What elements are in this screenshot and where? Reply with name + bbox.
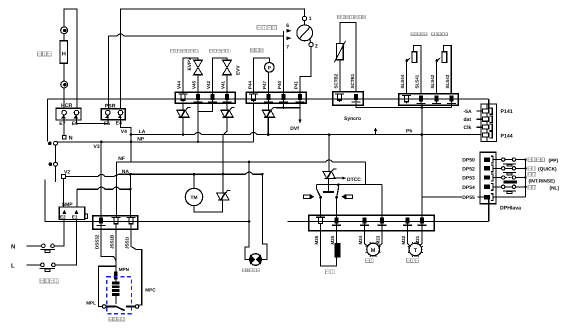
wire JSS1I to MPC	[131, 226, 142, 305]
drain triac	[216, 192, 225, 194]
label door lock (gray)	[109, 317, 112, 321]
label level switch (gray)	[257, 25, 261, 29]
svg-text:NA: NA	[122, 169, 130, 175]
svg-text:JSS1I: JSS1I	[124, 237, 129, 249]
svg-text:dat: dat	[464, 117, 472, 123]
label wash temp sensor (gray)	[338, 15, 341, 19]
svg-text:Clk: Clk	[464, 125, 472, 131]
wire net JSS1B (from NF)	[115, 162, 117, 218]
wire terminal2 to pin P41	[300, 47, 311, 94]
svg-text:SCTB2: SCTB2	[334, 73, 339, 88]
svg-text:DP53: DP53	[462, 176, 475, 182]
svg-text:E7: E7	[59, 121, 65, 127]
svg-text:DP55: DP55	[462, 195, 475, 201]
svg-text:V2: V2	[64, 170, 70, 176]
wire NF to drain pump left	[245, 162, 250, 260]
wire DP55 from motor net	[422, 196, 462, 198]
label drain pump (gray)	[243, 269, 246, 272]
wire	[63, 63, 65, 81]
svg-text:M24: M24	[358, 235, 363, 244]
svg-text:EVPV: EVPV	[187, 57, 193, 71]
wire SLS41 long net to motor pin M21	[421, 104, 423, 218]
svg-text:E5: E5	[104, 121, 110, 127]
wire triac2 down to NA rail and drain triac	[223, 117, 227, 193]
door lock chain	[115, 268, 117, 271]
wire E2 to mains N	[54, 220, 64, 246]
pin P44	[249, 93, 258, 95]
rail V2 / NA	[62, 175, 66, 179]
label heater (gray)	[38, 52, 42, 56]
svg-text:M: M	[371, 248, 376, 254]
svg-text:MPC: MPC	[145, 287, 156, 292]
pump P	[265, 63, 275, 73]
PSR contact E5	[106, 110, 111, 115]
wire net JSS1I (from NA)	[129, 174, 131, 217]
DIP pin DP53	[484, 175, 490, 179]
pin P47	[267, 94, 271, 100]
terminal MPL	[102, 305, 106, 309]
svg-text:PSR: PSR	[105, 103, 116, 109]
HCR contact E7	[62, 110, 67, 115]
svg-text:M22: M22	[401, 235, 406, 244]
thermal module TM	[185, 188, 202, 205]
HCR contact E6	[74, 110, 79, 115]
wire NA to drain pump right	[261, 174, 267, 259]
svg-text:-5A: -5A	[464, 109, 472, 115]
switch DP54	[493, 186, 502, 188]
pin JSS1I	[126, 217, 135, 219]
svg-text:DPHlava: DPHlava	[500, 205, 521, 211]
svg-text:(INT.RINSE): (INT.RINSE)	[529, 178, 556, 184]
label mains plug (gray)	[40, 279, 44, 283]
svg-text:L: L	[11, 263, 15, 270]
pin M24	[363, 217, 367, 223]
triac DV2 (cold valve)	[220, 109, 229, 111]
svg-text:P141: P141	[501, 109, 513, 115]
plug plate L	[40, 267, 55, 269]
wire	[63, 88, 65, 109]
pin DSS32	[99, 218, 103, 224]
triac DP (pump)	[262, 109, 271, 111]
net DVf: pin P41 to pump triac gate	[276, 108, 300, 121]
wire triac to LA rail	[182, 117, 184, 134]
motor feed rail	[316, 184, 382, 186]
DIP pin DP55	[484, 195, 490, 199]
switch DP53	[493, 177, 502, 179]
main board bus y99	[48, 98, 489, 100]
svg-text:MPL: MPL	[86, 301, 96, 306]
terminal N	[62, 135, 66, 139]
P141 pin row 3	[483, 125, 489, 129]
heater top terminal	[61, 27, 68, 34]
svg-text:(NL): (NL)	[550, 185, 560, 191]
pin SLS44	[402, 95, 411, 97]
svg-text:HCR: HCR	[61, 103, 72, 109]
wire JSS1B to lock junction	[115, 226, 117, 269]
P141 pin row 2	[483, 117, 489, 121]
rail LA / Ph (phase)	[131, 133, 482, 135]
pin JSS1B	[111, 217, 120, 219]
wire SLS43 to return line	[451, 104, 453, 108]
rail NF	[116, 160, 365, 162]
wire E6 to E5	[77, 115, 108, 124]
triac DTCC	[322, 170, 331, 172]
wire E1 to mains L	[55, 220, 76, 265]
DIP pin DP52	[484, 166, 490, 170]
wire EVPV to pin V45	[197, 75, 199, 94]
svg-text:1: 1	[309, 16, 312, 22]
pin SCTB2	[335, 93, 344, 95]
wire SMP E1 line	[77, 187, 130, 189]
triac DV1 (hot valve)	[176, 109, 185, 111]
svg-text:DP50: DP50	[462, 158, 475, 164]
NTC body	[337, 44, 344, 60]
svg-text:SMP: SMP	[62, 202, 74, 208]
wire P top loop to pin P44	[254, 58, 270, 94]
wire rail to bottom bus	[488, 197, 490, 221]
connector P141/P144	[481, 104, 497, 141]
wire MPL riser	[99, 266, 117, 306]
svg-text:P47: P47	[262, 80, 267, 89]
svg-text:P44: P44	[247, 80, 252, 89]
svg-text:E1: E1	[72, 215, 78, 220]
svg-text:NP: NP	[137, 136, 145, 142]
wire V2 to SMP E2	[62, 178, 64, 207]
water level switch body	[297, 25, 313, 41]
wire E7 to terminal N	[63, 115, 65, 135]
lock contacts	[106, 305, 115, 307]
wire top net to level switch terminal 1	[121, 9, 305, 109]
svg-text:DVf: DVf	[290, 126, 299, 132]
wire	[63, 34, 65, 41]
heater bottom terminal	[61, 81, 68, 88]
drain pump motor	[250, 254, 262, 266]
switch DP50	[493, 159, 502, 161]
rail V3 / NP	[57, 141, 253, 143]
svg-text:MPN: MPN	[119, 267, 130, 272]
relay HCR	[56, 108, 81, 120]
NTC sensor SCTB loop	[340, 22, 356, 91]
valve EVV body	[223, 59, 232, 61]
pin SCTB1	[354, 94, 358, 100]
pin P40	[281, 94, 285, 100]
P141 pin row 4	[483, 133, 489, 137]
relay PSR	[101, 109, 125, 120]
svg-text:SCTB1: SCTB1	[350, 73, 355, 88]
inline connector pair A	[48, 142, 52, 146]
sensor SLS42/43 loop	[436, 59, 438, 94]
label hot water valve (gray)	[171, 49, 174, 52]
svg-text:DTCC: DTCC	[347, 177, 361, 183]
PSR contact E4	[118, 110, 123, 115]
svg-text:6: 6	[286, 23, 289, 29]
svg-text:SLS44: SLS44	[400, 74, 405, 88]
svg-text:M25: M25	[330, 235, 335, 244]
wire pin P44 down to NP rail	[253, 103, 255, 142]
wire	[55, 166, 57, 182]
svg-text:DP52: DP52	[462, 166, 475, 172]
svg-text:V42: V42	[206, 80, 211, 89]
svg-text:LA: LA	[139, 129, 146, 135]
wire rail to pin M23	[381, 185, 383, 218]
wire bus left leg	[45, 180, 249, 222]
svg-text:P41: P41	[294, 80, 299, 89]
wire triac to LA rail	[267, 117, 269, 134]
door lock boundary (blue dashed)	[107, 277, 132, 314]
svg-text:7: 7	[286, 45, 289, 51]
wire	[108, 36, 110, 109]
wire TM bottom loop	[194, 200, 223, 212]
valve EVV loop	[213, 58, 228, 94]
heater element H	[60, 41, 67, 64]
wire EVV to pin V41	[226, 75, 228, 94]
svg-text:V45: V45	[192, 80, 197, 89]
svg-text:V4: V4	[121, 129, 127, 135]
wire E4 to LA rail (net V4)	[121, 115, 132, 162]
level switch terminal 2	[309, 42, 313, 46]
wire pin V44 to triac	[182, 103, 184, 110]
Syncro tap on Ph rail	[375, 130, 377, 135]
DIP option labels (gray)	[528, 158, 532, 162]
wire bus to connector P141 pin1	[488, 99, 490, 109]
level switch terminal 1	[302, 16, 306, 20]
heater EH loop top wire	[64, 9, 77, 109]
motor common plate	[323, 191, 334, 193]
pin M25	[335, 217, 339, 223]
wire frame left drop	[47, 99, 49, 142]
svg-text:N: N	[69, 136, 73, 142]
DIP connector DP5x	[480, 152, 496, 204]
svg-text:NF: NF	[118, 156, 125, 162]
pin P41	[298, 94, 302, 100]
tacho T	[407, 225, 409, 244]
svg-text:P40: P40	[277, 80, 282, 89]
svg-text:(PP): (PP)	[549, 158, 559, 164]
svg-text:N: N	[11, 243, 15, 250]
label speed sensor 1 (gray)	[411, 33, 414, 36]
wire Ph to DTCC triac	[328, 135, 330, 172]
direction arrow left	[303, 195, 310, 198]
label cold water valve (gray)	[210, 49, 213, 52]
wire net DSS32 (from V3)	[100, 142, 102, 218]
terminal MPC	[135, 305, 139, 309]
motor connector strip M2x	[309, 215, 434, 231]
svg-text:(QUICK): (QUICK)	[538, 167, 557, 173]
svg-text:M26: M26	[314, 235, 319, 244]
level switch terminals 6/7	[283, 31, 285, 38]
svg-text:EVV: EVV	[236, 65, 242, 75]
pin V44	[179, 93, 188, 95]
svg-text:SLS42: SLS42	[430, 74, 435, 88]
pin V42	[211, 94, 215, 100]
valve EVPV loop	[183, 58, 198, 94]
PTC block	[112, 282, 120, 285]
pin V41	[225, 94, 229, 100]
wire pins V45+V42 to NP rail	[197, 103, 199, 142]
svg-text:E4: E4	[116, 121, 122, 127]
svg-text:V41: V41	[221, 80, 226, 89]
reversing contact left	[315, 185, 317, 189]
wire DSS32 to lock junction	[101, 226, 116, 261]
DIP common rail	[525, 160, 527, 198]
connector strip P44/P47/P40/P41	[246, 92, 306, 103]
DIP pin DP54	[484, 185, 490, 189]
pin M23	[380, 217, 384, 223]
pin SLS43	[450, 96, 454, 102]
label pump (gray)	[251, 48, 255, 52]
stator winding loop	[321, 225, 337, 266]
wire NA to TM	[193, 174, 195, 188]
svg-text:Ph: Ph	[406, 129, 412, 135]
svg-text:DSS32: DSS32	[95, 234, 100, 249]
reversing contact right	[337, 185, 339, 189]
valve EVPV body	[194, 59, 203, 61]
wire sensor return line y107.5	[356, 103, 452, 107]
pin M21	[420, 217, 424, 223]
wire pin V41 to triac	[226, 103, 228, 110]
connector strip V44/V45/V42/V41	[175, 92, 235, 103]
svg-text:V3: V3	[94, 144, 100, 150]
connector strip DSS	[93, 216, 138, 230]
direction arrow right	[346, 195, 353, 198]
wire pin P47 to triac	[268, 103, 270, 110]
wire E1 riser	[76, 189, 78, 207]
wire net to level switch terminals 6/7 (hop over x120.6)	[109, 34, 284, 36]
wire NF down to motor rail	[364, 162, 366, 185]
stator winding	[334, 243, 340, 258]
svg-text:E2: E2	[60, 215, 66, 220]
label speed sensor 2 (gray)	[432, 33, 435, 36]
pin SLS41	[419, 96, 423, 102]
svg-text:DP54: DP54	[462, 185, 475, 191]
plug plate N	[41, 248, 55, 250]
sensor SLS44/41 loop	[406, 59, 408, 94]
pin M26	[316, 216, 325, 218]
P141 pin row 1	[483, 109, 489, 113]
power switch SMP	[59, 207, 84, 220]
DIP pin DP50	[484, 157, 490, 161]
wire DTCC to common plate	[328, 178, 330, 191]
connector strip SCTB	[333, 92, 364, 106]
bottom bus wire	[287, 221, 488, 223]
svg-text:TM: TM	[191, 195, 198, 201]
svg-text:H: H	[62, 51, 66, 57]
pin SLS42	[434, 96, 438, 102]
wire terminal7 to pin P40	[283, 38, 285, 94]
wire V3 drop	[55, 145, 57, 162]
pin M22	[406, 217, 410, 223]
svg-text:P144: P144	[501, 134, 513, 140]
connector strip SLS	[399, 94, 459, 106]
svg-text:SLS41: SLS41	[415, 74, 420, 88]
svg-text:V44: V44	[177, 80, 182, 89]
svg-text:JSS1B: JSS1B	[109, 234, 114, 249]
rotor motor M	[364, 225, 366, 244]
pin V45	[196, 94, 200, 100]
switch DP52	[493, 167, 502, 169]
svg-text:Syncro: Syncro	[344, 116, 361, 122]
svg-text:2: 2	[315, 44, 318, 50]
inline connector pair B	[49, 162, 53, 166]
svg-text:SLS43: SLS43	[445, 74, 450, 88]
wire P bottom to pin P47	[268, 72, 270, 94]
